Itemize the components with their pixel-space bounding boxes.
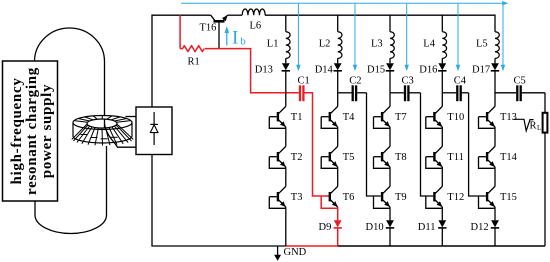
label T6 [343, 192, 355, 203]
wire branch 3 to D10 [389, 207, 391, 220]
svg-text:L4: L4 [423, 38, 435, 49]
svg-text:T12: T12 [447, 192, 464, 203]
rectifier box [136, 107, 172, 155]
svg-text:T10: T10 [447, 112, 464, 123]
wire branch 4 diode to T [441, 71, 443, 107]
transistor T2 [269, 146, 286, 168]
inductor L5 [495, 32, 499, 59]
inductor L1 [286, 32, 290, 59]
wire primary loop top arc [35, 28, 105, 123]
svg-text:D16: D16 [419, 64, 437, 75]
svg-text:T7: T7 [395, 112, 407, 123]
label T4 [343, 112, 355, 123]
wire C2 down to T9 base [367, 93, 381, 196]
label C4 [454, 75, 467, 86]
svg-text:C2: C2 [349, 75, 361, 86]
transistor T14 [479, 146, 496, 168]
wire D11 to rail [441, 228, 443, 246]
wire branch 4 to D11 [441, 207, 443, 220]
wire branch 3 diode to T [389, 71, 391, 107]
label T8 [395, 152, 407, 163]
wire [441, 127, 443, 146]
wire toroid exit curve [105, 124, 119, 147]
diode D13 [282, 58, 290, 71]
label T1 [291, 112, 303, 123]
svg-text:T11: T11 [447, 152, 464, 163]
diode D14 [334, 58, 342, 71]
label L5 [476, 38, 488, 49]
svg-text:T2: T2 [291, 152, 303, 163]
label L2 [319, 38, 331, 49]
wire [389, 127, 391, 146]
wire rectifier to bottom rail [152, 155, 286, 247]
wire [441, 167, 443, 186]
current arrow branch 1 [296, 3, 300, 71]
diode D16 [438, 58, 446, 71]
svg-text:I: I [232, 27, 238, 48]
wire [337, 127, 339, 146]
wire branch 4 from rail [441, 15, 443, 32]
svg-text:L1: L1 [267, 38, 279, 49]
current arrow branch 5 [501, 3, 505, 71]
label C5 [514, 75, 526, 86]
svg-text:T13: T13 [500, 112, 517, 123]
rectifier diode [150, 112, 158, 145]
label T9 [395, 192, 407, 203]
ground [274, 246, 281, 261]
svg-text:T16: T16 [200, 23, 217, 34]
wire [285, 127, 287, 146]
wire red T6 emitter to D9 [337, 207, 339, 220]
svg-text:C5: C5 [514, 75, 526, 86]
label Ib [232, 27, 246, 48]
svg-text:T15: T15 [500, 192, 517, 203]
diode D12 [491, 220, 499, 228]
transistor T9 [374, 186, 391, 208]
transistor T13 [479, 106, 496, 128]
wire C4 down to T15 base [469, 93, 486, 196]
wire secondary lead top [126, 116, 137, 118]
label D14 [315, 64, 334, 75]
current arrow branch 3 [405, 3, 409, 71]
label C3 [402, 75, 414, 86]
svg-text:D12: D12 [471, 222, 489, 233]
current arrow Ib [225, 26, 230, 45]
label T15 [500, 192, 517, 203]
wire red C1 to T6 base [305, 93, 331, 196]
wire top rail [265, 15, 495, 32]
capacitor C2 [338, 85, 367, 101]
label T5 [343, 152, 355, 163]
resistor R1 [180, 46, 204, 52]
wire rectifier to top rail [152, 15, 211, 107]
label D17 [472, 64, 490, 75]
wire rail T16 to L6 [228, 14, 243, 16]
svg-text:D11: D11 [418, 222, 436, 233]
svg-text:T1: T1 [291, 112, 303, 123]
svg-text:T3: T3 [291, 192, 303, 203]
transistor T7 [374, 106, 391, 128]
transistor T10 [426, 106, 443, 128]
label D10 [366, 222, 384, 233]
wire branch 1 to bottom rail [285, 207, 287, 246]
transistor T15 [479, 186, 496, 208]
wire [285, 167, 287, 186]
wire D12 to rail [494, 228, 496, 246]
inductor L6 [242, 9, 265, 15]
diode D9 [334, 220, 342, 228]
power supply box [3, 61, 58, 201]
svg-text:b: b [240, 36, 246, 48]
wire [494, 167, 496, 186]
label L1 [267, 38, 279, 49]
svg-text:L6: L6 [250, 20, 262, 31]
wire red D9 to rail [337, 228, 339, 246]
wire branch 2 diode to T [337, 71, 339, 107]
svg-text:C4: C4 [454, 75, 467, 86]
label L4 [423, 38, 435, 49]
svg-text:R: R [530, 120, 537, 131]
svg-text:D14: D14 [315, 64, 334, 75]
wire red from rail [179, 15, 181, 48]
capacitor C5 [495, 85, 545, 101]
label T13 [500, 112, 517, 123]
inductor L4 [442, 32, 446, 59]
current arrow branch 2 [353, 3, 357, 71]
svg-text:GND: GND [284, 247, 307, 258]
wire red R1 to C1 [205, 49, 299, 93]
load resistor RL [543, 113, 548, 133]
current arrow top [181, 1, 508, 5]
svg-text:D10: D10 [366, 222, 384, 233]
wire C3 down to T12 base [421, 93, 434, 196]
transistor T4 [321, 106, 338, 128]
inductor L2 [338, 32, 342, 59]
label T2 [291, 152, 303, 163]
diode D10 [386, 220, 394, 228]
label T14 [500, 152, 518, 163]
label T10 [447, 112, 464, 123]
svg-text:L2: L2 [319, 38, 331, 49]
label R1 [188, 56, 200, 67]
svg-text:D9: D9 [319, 222, 332, 233]
transistor T16 [211, 15, 228, 48]
label D13 [255, 64, 273, 75]
wire [494, 127, 496, 146]
wire C5 to load [544, 93, 546, 113]
label T12 [447, 192, 464, 203]
diode D15 [386, 58, 394, 71]
wire branch 5 diode to T [494, 71, 496, 107]
svg-text:R1: R1 [188, 56, 200, 67]
svg-text:high-frequencyresonant chargin: high-frequencyresonant chargingpower sup… [9, 67, 55, 195]
label C2 [349, 75, 361, 86]
label T16 [200, 23, 217, 34]
wire bottom rail [338, 245, 545, 247]
transistor T1 [269, 106, 286, 128]
transistor T8 [374, 146, 391, 168]
svg-text:T9: T9 [395, 192, 407, 203]
svg-text:D13: D13 [255, 64, 273, 75]
label T3 [291, 192, 303, 203]
capacitor C3 [390, 85, 421, 101]
svg-text:T8: T8 [395, 152, 407, 163]
transistor T6 [330, 186, 338, 207]
wire red bottom rail segment [286, 245, 338, 247]
capacitor C4 [442, 85, 468, 101]
diode D11 [438, 220, 446, 228]
capacitor C1 [300, 85, 303, 101]
label D16 [419, 64, 437, 75]
label D9 [319, 222, 332, 233]
label T11 [447, 152, 464, 163]
label D12 [471, 222, 489, 233]
svg-text:D17: D17 [472, 64, 490, 75]
transformer toroid core [72, 116, 133, 146]
label RL annotation [514, 119, 542, 132]
wire red T6 base loop [321, 196, 338, 208]
wire [337, 167, 339, 186]
transistor T12 [426, 186, 443, 208]
wire branch 1 from rail [285, 15, 287, 32]
svg-text:T6: T6 [343, 192, 355, 203]
transistor T11 [426, 146, 443, 168]
inductor L3 [390, 32, 394, 59]
svg-text:C1: C1 [298, 75, 310, 86]
wire load to bottom rail [544, 133, 546, 246]
current arrow branch 4 [456, 3, 460, 71]
wire primary loop bottom U [35, 146, 107, 233]
wire branch 5 to D12 [494, 207, 496, 220]
label D15 [367, 64, 385, 75]
label L3 [371, 38, 383, 49]
label D11 [418, 222, 436, 233]
diode D17 [491, 58, 499, 71]
wire through toroid hole [104, 120, 106, 128]
svg-text:T4: T4 [343, 112, 355, 123]
wire secondary lead bottom [117, 146, 136, 148]
svg-text:C3: C3 [402, 75, 414, 86]
wire [389, 167, 391, 186]
svg-text:T5: T5 [343, 152, 355, 163]
svg-text:L5: L5 [476, 38, 488, 49]
svg-text:L3: L3 [371, 38, 383, 49]
wire branch 2 from rail [337, 15, 339, 32]
wire branch 1 diode to T [285, 71, 287, 107]
svg-text:D15: D15 [367, 64, 385, 75]
wire branch 3 from rail [389, 15, 391, 32]
label C1 [298, 75, 310, 86]
wire D10 to rail [389, 228, 391, 246]
svg-text:L: L [537, 124, 541, 132]
transistor T5 [321, 146, 338, 168]
label L6 [250, 20, 262, 31]
label GND [284, 247, 307, 258]
svg-text:T14: T14 [500, 152, 518, 163]
transistor T3 [269, 186, 286, 208]
label T7 [395, 112, 407, 123]
